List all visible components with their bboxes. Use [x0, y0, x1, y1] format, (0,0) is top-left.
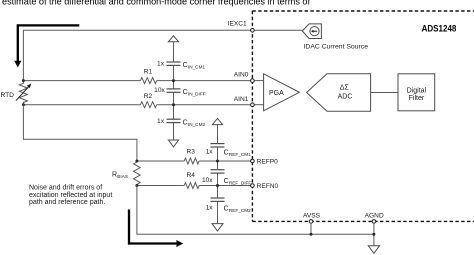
RTD sensor — [1, 81, 32, 105]
wire: ADC to digital filter — [371, 92, 398, 94]
terminal AVSS — [303, 212, 321, 223]
wire AIN0: RTD top node to AIN0 terminal (through R1) — [23, 80, 250, 82]
note text — [29, 185, 112, 207]
wire: AGND stub to ground — [373, 223, 375, 246]
node: RBIAS bottom — [135, 184, 138, 187]
down triangle bottom of CIN chain — [168, 140, 178, 147]
svg-text:PGA: PGA — [269, 90, 284, 97]
wire: IEXC1 to RTD top — [23, 30, 250, 80]
capacitor chain vertical wires (CIN) — [173, 42, 175, 140]
svg-text:REFN0: REFN0 — [257, 183, 279, 190]
svg-text:C: C — [183, 119, 188, 126]
capacitor CIN_CM1 — [157, 61, 205, 70]
resistor R1 — [141, 69, 157, 84]
svg-text:Filter: Filter — [409, 95, 425, 102]
svg-text:1x: 1x — [157, 61, 165, 68]
node: CREF chain / REFP0 wire — [216, 160, 219, 163]
node: AVSS on rail — [310, 233, 313, 236]
up triangle top of CIN chain — [168, 36, 178, 42]
resistor R2 — [141, 93, 157, 108]
svg-text:REF_CM1: REF_CM1 — [229, 152, 251, 157]
svg-text:IEXC1: IEXC1 — [228, 21, 247, 28]
svg-text:ADC: ADC — [338, 94, 353, 101]
resistor R4 — [184, 172, 199, 188]
svg-text:1x: 1x — [206, 149, 214, 156]
current flow arrow (bottom, thick) — [129, 210, 183, 248]
capacitor CIN_CM2 — [157, 118, 205, 127]
wire: RBIAS bottom to AVSS/AGND rail — [137, 186, 374, 235]
terminal AIN0 — [234, 72, 254, 83]
capacitor chain vertical wires (CREF) — [217, 125, 219, 224]
svg-text:BIAS: BIAS — [117, 174, 128, 179]
capacitor CREF_CM2 — [206, 198, 252, 213]
svg-text:C: C — [183, 62, 188, 69]
ADS1248 dashed boundary — [252, 11, 474, 221]
terminal AIN1 — [234, 96, 254, 106]
wire REFP0: RBIAS top node to REFP0 terminal (through R3) — [137, 160, 251, 162]
svg-text:path and reference path.: path and reference path. — [29, 199, 105, 206]
svg-text:ΔΣ: ΔΣ — [340, 84, 350, 91]
node: RTD top / AIN0 — [22, 79, 25, 82]
node: CIN chain / AIN0 wire — [172, 79, 175, 82]
digital filter block — [398, 74, 435, 111]
down triangle bottom of CREF chain — [212, 224, 223, 231]
svg-text:R2: R2 — [144, 93, 153, 100]
svg-text:R: R — [112, 172, 117, 179]
delta-sigma ADC — [307, 74, 371, 112]
svg-text:IN_DIFF: IN_DIFF — [188, 91, 206, 96]
terminal REFN0 — [251, 183, 279, 190]
wire: AIN0 terminal to PGA — [254, 80, 263, 82]
svg-text:AIN1: AIN1 — [234, 96, 249, 103]
resistor RBIAS — [112, 161, 140, 186]
node: RBIAS top — [135, 160, 138, 163]
svg-text:estimate of the differential a: estimate of the differential and common-… — [2, 0, 310, 6]
svg-text:C: C — [224, 178, 229, 185]
current flow arrow (top left, thick) — [14, 25, 79, 67]
wire: IEXC1 to IDAC — [254, 29, 302, 31]
svg-text:Digital: Digital — [407, 88, 427, 95]
wire: RTD bottom down and right to RBIAS top — [23, 105, 136, 161]
svg-text:IDAC Current Source: IDAC Current Source — [304, 44, 369, 51]
svg-text:10x: 10x — [154, 87, 165, 94]
node: AGND on rail — [372, 233, 375, 236]
wire REFN0: RBIAS bottom node to REFN0 terminal (through R4) — [137, 185, 251, 187]
terminal AGND — [365, 212, 384, 223]
svg-text:IN_CM2: IN_CM2 — [188, 122, 206, 127]
svg-text:REFP0: REFP0 — [257, 159, 279, 166]
svg-text:R4: R4 — [186, 172, 195, 179]
svg-text:1x: 1x — [157, 118, 165, 125]
svg-text:AIN0: AIN0 — [234, 72, 249, 79]
svg-text:C: C — [183, 89, 188, 96]
svg-text:REF_DIFF: REF_DIFF — [229, 181, 252, 186]
capacitor CREF_DIFF — [202, 170, 251, 186]
svg-text:RTD: RTD — [1, 92, 15, 99]
node: CREF chain / REFN0 wire — [216, 184, 219, 187]
terminal REFP0 — [251, 159, 279, 166]
svg-text:ADS1248: ADS1248 — [422, 24, 457, 34]
ground symbol — [368, 246, 379, 254]
svg-text:AVSS: AVSS — [303, 212, 321, 219]
svg-text:REF_CM2: REF_CM2 — [229, 208, 251, 213]
svg-text:1x: 1x — [206, 205, 214, 212]
PGA amplifier — [264, 74, 300, 111]
wire: AIN1 terminal to PGA — [254, 104, 263, 106]
svg-text:C: C — [224, 205, 229, 212]
svg-text:R3: R3 — [186, 148, 195, 155]
capacitor CIN_DIFF — [154, 87, 206, 96]
capacitor CREF_CM1 — [206, 144, 252, 157]
node: RTD bottom / AIN1 — [22, 103, 25, 106]
up triangle top of CREF chain — [212, 118, 222, 124]
svg-text:IN_CM1: IN_CM1 — [188, 65, 206, 70]
svg-text:AGND: AGND — [365, 212, 384, 219]
wire: AVSS stub — [310, 223, 312, 234]
IDAC current source U1 — [302, 24, 368, 51]
resistor R3 — [184, 148, 199, 164]
wire AIN1: RTD bottom node to AIN1 terminal (through R2) — [23, 104, 250, 106]
svg-text:R1: R1 — [144, 69, 153, 76]
svg-text:C: C — [224, 150, 229, 157]
svg-text:10x: 10x — [202, 177, 213, 184]
terminal IEXC1 — [228, 21, 255, 33]
svg-text:excitation reflected at input: excitation reflected at input — [29, 192, 112, 199]
svg-text:Noise and drift errors of: Noise and drift errors of — [29, 185, 102, 192]
node: CIN chain / AIN1 wire — [172, 103, 175, 106]
